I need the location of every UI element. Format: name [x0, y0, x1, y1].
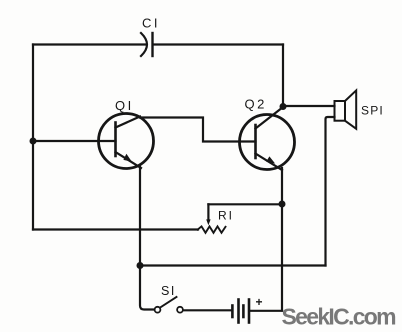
switch S1: [155, 284, 183, 313]
svg-text:RI: RI: [218, 209, 234, 223]
svg-text:CI: CI: [142, 16, 160, 31]
wire bottom return to junction: [140, 264, 326, 266]
node Q2 emitter junction dot: [279, 201, 286, 208]
wire switch to battery: [183, 309, 231, 311]
wire Q1 collector to Q2 base: [140, 118, 256, 142]
svg-text:SI: SI: [161, 284, 176, 298]
node collector Q2 junction dot: [280, 103, 287, 110]
wire left vertical: [32, 45, 34, 230]
wire speaker lower terminal: [326, 117, 335, 266]
potentiometer R1: [198, 204, 235, 233]
wire top-right horizontal: [154, 43, 284, 45]
wire base of Q1: [33, 140, 116, 142]
svg-text:QI: QI: [115, 98, 134, 113]
node bottom junction dot: [137, 262, 144, 269]
capacitor C1: [141, 16, 160, 57]
svg-text:+: +: [256, 295, 263, 309]
wire R1 wiper to Q2 emitter node: [208, 203, 282, 205]
wire node to speaker: [283, 105, 335, 107]
svg-text:Q2: Q2: [245, 97, 267, 112]
wire top-left horizontal: [33, 43, 146, 45]
wire Q1 emitter vertical: [140, 166, 155, 310]
transistor Q2: [240, 97, 295, 171]
transistor Q1: [99, 98, 154, 169]
node base Q1 junction dot: [30, 138, 37, 145]
svg-text:SeekIC.com: SeekIC.com: [282, 304, 397, 330]
wire bottom loop horizontal: [33, 228, 198, 230]
wire battery to vertical: [250, 310, 282, 312]
wire right vertical to node: [282, 45, 284, 107]
wire Q2 emitter down to battery: [281, 168, 283, 311]
svg-text:SPI: SPI: [361, 104, 384, 118]
battery B1: [232, 295, 262, 323]
speaker SP1: [335, 90, 384, 128]
